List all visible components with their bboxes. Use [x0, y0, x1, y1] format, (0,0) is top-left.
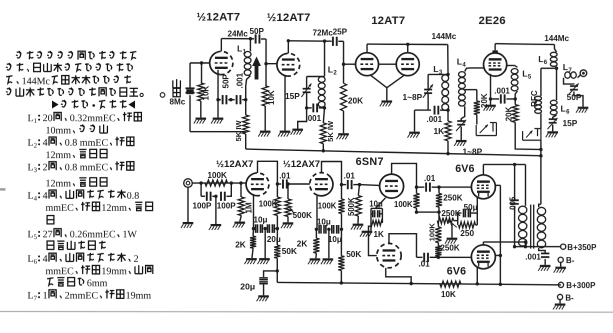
svg-text:5K IW: 5K IW — [234, 120, 243, 142]
wire 100P mid ground — [215, 196, 217, 224]
resistor R20 250K — [436, 187, 442, 212]
wire plate to transformer top — [483, 163, 525, 165]
tube V8 6SN7 upper — [380, 174, 404, 198]
label 10u C25 — [369, 199, 383, 208]
svg-text:20μ: 20μ — [240, 281, 255, 291]
capacitor C8 .001 stage3 — [435, 106, 449, 115]
label 100K R12 — [259, 199, 278, 208]
wire C19 to V8 grid — [359, 184, 379, 187]
svg-text:.001: .001 — [427, 115, 443, 124]
svg-text:L: L — [328, 65, 333, 75]
wire V9 grid — [368, 226, 376, 255]
tube V2 1/2 12AT7 label — [267, 12, 311, 24]
node L3 top junction — [446, 73, 449, 76]
svg-text:1K: 1K — [434, 126, 445, 136]
svg-text:144Mc: 144Mc — [544, 34, 569, 43]
label 1~8P C9 — [463, 147, 483, 157]
resistor R12 100K plate V6 — [274, 184, 280, 229]
node L6 center tap — [555, 67, 558, 70]
tube V9 6SN7 lower — [377, 243, 401, 267]
ground stage2 tank — [291, 129, 303, 135]
svg-text:100K: 100K — [427, 223, 436, 242]
svg-text:4: 4 — [34, 196, 38, 203]
node divider a — [415, 210, 418, 213]
svg-text:50P: 50P — [222, 74, 231, 89]
svg-text:2mmEC: 2mmEC — [65, 291, 99, 302]
resistor R13 2K cathode — [250, 229, 256, 259]
text note line 14 — [47, 216, 54, 224]
svg-text:100P: 100P — [192, 201, 212, 210]
capacitor C3 .001 — [231, 95, 246, 104]
wire grid link V3-V4 — [379, 63, 396, 65]
label 10u C16 — [253, 216, 267, 225]
label 100K R9 — [207, 171, 227, 180]
wire RF B feed line — [246, 149, 541, 156]
wire secondary bottom — [539, 248, 546, 253]
svg-text:6mm: 6mm — [87, 278, 108, 289]
label 100K R23 rotated — [427, 223, 436, 242]
tube V2 1/2 12AT7 triode — [277, 53, 300, 76]
node V6 plate junction — [276, 182, 279, 185]
ground stage3 tank — [408, 132, 420, 138]
ground R3 — [258, 131, 270, 137]
svg-text:5K IW: 5K IW — [326, 120, 335, 142]
svg-text:250K: 250K — [440, 244, 460, 253]
svg-text:2E26: 2E26 — [479, 15, 506, 27]
svg-text:24Mc: 24Mc — [228, 30, 249, 39]
wire to 6V6a grid — [439, 186, 471, 188]
wire bus corner — [276, 271, 278, 283]
capacitor C9 1-8P variable L4 — [456, 106, 466, 140]
label 15P C11 — [563, 118, 578, 128]
capacitor C14 100P — [221, 183, 231, 201]
resistor R8 20K screen — [512, 99, 518, 122]
label 10u C21 — [328, 235, 342, 244]
svg-text:10μ: 10μ — [317, 218, 331, 227]
connector antenna output — [580, 70, 587, 77]
resistor R7 20K grid PA — [474, 90, 480, 125]
text note line 10 — [27, 161, 133, 174]
node V7 cathode junction — [315, 228, 318, 231]
text note line 20 — [27, 290, 151, 303]
ground C12 — [576, 107, 588, 113]
resistor R16 100K plate V7 — [338, 185, 344, 230]
wire V10 screen — [496, 184, 501, 186]
tube V1 1/2 12AT7 label — [197, 11, 241, 23]
capacitor C1 50P coupling — [256, 34, 266, 43]
coil L3 — [442, 75, 449, 111]
label 10K R3 rotated — [267, 90, 276, 105]
artifact small circle — [160, 93, 165, 98]
capacitor C2 50P cathode — [218, 95, 231, 104]
wire 25P to V3 grid — [344, 41, 356, 64]
jack J2 meter plate — [523, 129, 541, 141]
label 1K R25 — [373, 230, 384, 239]
wire L2 feed — [324, 41, 326, 76]
label RFC rotated — [530, 90, 539, 107]
resistor R18 50K decouple V7 — [338, 229, 344, 283]
svg-text:19mm: 19mm — [126, 291, 152, 302]
svg-text:B+350P: B+350P — [567, 243, 597, 252]
svg-text:2: 2 — [134, 254, 139, 265]
node C2-C3 junction — [229, 98, 232, 101]
label 10K R1 rotated — [202, 86, 211, 101]
label .001 C10 — [494, 86, 510, 95]
label suisho kanji — [173, 79, 181, 97]
svg-text:144Mc: 144Mc — [432, 32, 457, 41]
ground R10 — [233, 222, 245, 228]
tube V3 12AT7 a — [356, 53, 379, 76]
label 20K R5 — [348, 96, 363, 106]
node 6V6b grid junction — [437, 256, 440, 259]
wire pot to cathode net — [454, 213, 458, 221]
arrow tuning slug L1 — [252, 56, 261, 79]
label 2K R17 — [297, 238, 308, 248]
node V2 plate junction — [287, 39, 290, 42]
svg-text:1~8P: 1~8P — [403, 92, 423, 102]
capacitor C22 .01 — [416, 183, 439, 192]
wire tank top stage3 — [428, 73, 448, 75]
tube V7 half 12AX7 — [310, 173, 333, 196]
ground R15 — [351, 224, 363, 230]
text note line 9 — [45, 149, 107, 161]
label 25P — [333, 28, 348, 37]
label 100K R19 — [394, 200, 413, 209]
svg-text:½12AT7: ½12AT7 — [197, 11, 241, 23]
coil RFC — [535, 68, 542, 128]
node feed junction — [539, 154, 542, 157]
coil L5 — [511, 69, 518, 99]
node bypass mid b — [327, 228, 330, 231]
wire bias net top — [371, 207, 382, 209]
svg-text:6SN7: 6SN7 — [356, 156, 384, 168]
text note line 11 — [45, 178, 107, 190]
svg-text:7: 7 — [34, 295, 38, 302]
terminal B+350P — [561, 244, 566, 249]
wire divider link — [416, 211, 439, 213]
resistor R24 250K grid 6V6b — [435, 246, 441, 258]
svg-text:12mm: 12mm — [45, 150, 71, 161]
svg-text:15P: 15P — [285, 91, 300, 101]
node input junction a — [199, 181, 202, 184]
svg-text:10K: 10K — [441, 290, 456, 299]
node C5 bottom junction — [305, 106, 308, 109]
svg-text:B-: B- — [566, 256, 575, 265]
node V5 cathode junction — [489, 97, 492, 100]
ground cathode stage1 — [211, 118, 223, 124]
ground C27 — [538, 265, 550, 271]
wire to 6V6b grid — [438, 256, 471, 258]
node 20u3 junction — [276, 269, 279, 272]
node B rail jack junction — [539, 148, 542, 151]
capacitor C20 10u — [319, 225, 326, 234]
capacitor C18 20u main filter — [259, 271, 277, 295]
svg-text:2K: 2K — [297, 238, 308, 248]
node V8 plate junction — [415, 185, 418, 188]
tube V11 6V6 label lower — [447, 265, 466, 277]
resistor R19 100K plate V8 — [413, 187, 419, 212]
svg-text:10K: 10K — [202, 86, 211, 101]
svg-text:0.8: 0.8 — [127, 191, 140, 202]
label 100K R16 — [318, 202, 337, 211]
label 50P — [250, 27, 265, 36]
label L6 upper — [538, 54, 548, 66]
node L2 bottom junction — [323, 106, 326, 109]
tube V6 label — [216, 159, 253, 170]
capacitor C4 25P — [333, 37, 344, 46]
wire V3 cathode diagonal — [370, 75, 387, 88]
tube V4 12AT7 b — [396, 53, 419, 76]
label 8Mc — [170, 97, 186, 106]
ground bypass mid — [257, 258, 269, 264]
text note line 3 — [6, 75, 131, 87]
capacitor C16 10u — [256, 224, 263, 233]
text note line 13 — [45, 202, 152, 214]
label 10u C20 — [317, 218, 331, 227]
node bypass mid a — [263, 227, 266, 230]
wire cathode common — [386, 88, 388, 101]
node L1 top junction — [249, 37, 252, 40]
svg-text:100K: 100K — [207, 171, 227, 180]
wire J2 to feed node — [540, 140, 542, 156]
svg-text:250K: 250K — [443, 194, 463, 203]
svg-text:L: L — [522, 68, 527, 78]
label 250K R24 — [440, 244, 460, 253]
node L3 bottom junction — [446, 108, 449, 111]
wire V1 grid — [190, 62, 210, 64]
wire V5 cathode — [490, 74, 492, 99]
svg-text:20K: 20K — [505, 106, 514, 121]
wire V7 cathode — [316, 196, 318, 230]
svg-text:3: 3 — [34, 167, 38, 174]
svg-text:144Mc: 144Mc — [22, 76, 51, 87]
label 20u C18 — [240, 281, 255, 291]
resistor R15 500K grid V8 — [355, 185, 361, 224]
label 1~8P C7 — [403, 92, 423, 102]
coil L2 — [318, 77, 325, 108]
svg-text:.001: .001 — [236, 72, 245, 88]
coil L6 upper — [550, 52, 557, 66]
svg-text:50K: 50K — [282, 246, 297, 256]
wire R8 to B rail — [515, 122, 541, 149]
svg-text:L: L — [538, 54, 543, 64]
text note line 12 — [27, 190, 139, 203]
ground R13 — [244, 258, 256, 264]
text note line 19 — [47, 278, 108, 290]
label .001 C27 — [525, 252, 541, 261]
svg-text:10μ: 10μ — [328, 235, 342, 244]
capacitor C10 .001 PA — [491, 94, 516, 103]
svg-text:25P: 25P — [333, 28, 348, 37]
wire cathode bus 6V6 — [476, 213, 478, 225]
svg-text:.005: .005 — [508, 196, 517, 212]
svg-text:L: L — [457, 57, 462, 67]
wire V6 cathode — [252, 195, 254, 228]
label 1K R6 — [434, 126, 445, 136]
label 250 R22 — [460, 228, 474, 238]
wire screen bus vertical — [499, 185, 501, 284]
svg-text:.001: .001 — [525, 252, 541, 261]
label .01 C22 — [424, 174, 436, 183]
label 20K R7 rotated — [480, 93, 489, 108]
text note line 6 — [28, 112, 142, 125]
svg-text:20K: 20K — [348, 96, 363, 106]
wire bypass mid ground — [264, 229, 266, 258]
text note line 1 — [16, 51, 136, 60]
svg-text:20μ: 20μ — [267, 235, 281, 244]
wire cathode ground lead — [217, 100, 219, 118]
svg-text:.001: .001 — [306, 114, 322, 123]
svg-text:RFC: RFC — [530, 90, 539, 107]
label 24Mc — [228, 30, 249, 39]
svg-text:4: 4 — [43, 138, 48, 149]
svg-text:10K: 10K — [267, 90, 276, 105]
tube V5 2E26 beam tetrode — [484, 53, 507, 76]
node input junction c — [239, 181, 242, 184]
svg-text:10μ: 10μ — [253, 216, 267, 225]
svg-text:20: 20 — [43, 113, 53, 124]
wire B350 rail — [515, 246, 561, 248]
transformer T1 core — [531, 205, 534, 249]
ground B- upper — [554, 262, 566, 272]
node V3 grid junction — [342, 63, 345, 66]
capacitor C24 .01 lower — [416, 253, 438, 262]
wire V4 cathode diagonal — [387, 75, 405, 88]
coil L1 — [244, 39, 251, 100]
svg-text:250: 250 — [460, 228, 474, 238]
wire V5 plate rail — [495, 43, 554, 46]
text note line 7 — [46, 124, 108, 136]
wire secondary top to feed — [540, 156, 542, 205]
svg-text:50P: 50P — [250, 27, 265, 36]
label 50P C12 — [567, 92, 582, 102]
node plate transformer join — [524, 240, 527, 243]
wire V1 cathode — [217, 70, 219, 100]
wire plate to transformer bottom — [483, 242, 525, 247]
coil L4 — [459, 68, 471, 106]
svg-text:0.26mmEC: 0.26mmEC — [70, 229, 116, 240]
node cathode junction — [216, 98, 219, 101]
label L7 — [563, 62, 573, 74]
svg-text:½12AX7: ½12AX7 — [283, 159, 320, 170]
svg-text:.01: .01 — [279, 172, 291, 181]
crystal X1 8Mc — [185, 63, 194, 132]
text note line 4 — [6, 87, 143, 96]
resistor R23 100K feedback — [435, 221, 441, 246]
resistor R26 10K bus — [440, 281, 461, 287]
label L4 — [457, 57, 467, 69]
node screen bus bottom — [499, 283, 502, 286]
transformer T1 secondary — [537, 204, 545, 247]
svg-text:12mm: 12mm — [45, 178, 71, 189]
wire V2 plate to rail — [287, 41, 289, 54]
wire V11 plate — [482, 242, 484, 245]
resistor R22 250 cathode — [458, 213, 478, 228]
svg-text:½12AT7: ½12AT7 — [267, 12, 311, 24]
wire plate rail corner to L6 — [554, 44, 556, 52]
wire V9 plate over-route — [389, 234, 417, 258]
label 100P C13 — [192, 201, 212, 210]
svg-text:10mm: 10mm — [46, 125, 72, 136]
wire V11 screen — [496, 254, 501, 256]
ground C9 — [454, 140, 466, 146]
svg-text:500K: 500K — [347, 197, 356, 216]
svg-text:1: 1 — [34, 118, 37, 125]
svg-text:100K: 100K — [259, 199, 278, 208]
label L6 lower — [561, 104, 571, 116]
wire tank top stage2 — [307, 76, 325, 78]
label 10K R26 — [441, 290, 456, 299]
svg-text:1: 1 — [43, 291, 48, 302]
svg-text:1W: 1W — [122, 229, 137, 240]
node input junction b — [230, 181, 233, 184]
node 100P mid — [214, 195, 217, 198]
label B+350P — [567, 243, 597, 252]
ground R17 — [308, 258, 320, 264]
resistor R2 5K 1W — [243, 100, 249, 149]
resistor R4 5K 1W stage2 — [320, 108, 326, 151]
svg-text:10μ: 10μ — [369, 199, 383, 208]
svg-text:6V6: 6V6 — [447, 265, 466, 277]
node 6V6 grid row junction — [437, 185, 440, 188]
ground R11 — [281, 222, 293, 228]
wire C5 ground lead — [298, 108, 307, 129]
tube V11 6V6 lower — [471, 245, 495, 269]
capacitor C12 50P variable — [564, 78, 584, 107]
tube V10 6V6 upper — [471, 175, 495, 199]
node V6 plate res bottom — [276, 227, 279, 230]
resistor R25 1K bias — [371, 214, 382, 226]
label 5K 1W R4 rotated — [326, 120, 335, 142]
svg-text:½12AX7: ½12AX7 — [216, 159, 253, 170]
svg-text:mmEC: mmEC — [45, 266, 74, 277]
tube V8 V9 6SN7 label — [356, 156, 384, 168]
svg-text:72Mc: 72Mc — [313, 28, 334, 37]
resistor R14 50K decouple — [274, 229, 280, 271]
wire top rail stage2 — [288, 40, 331, 42]
svg-text:0.8 mmEC: 0.8 mmEC — [65, 138, 109, 149]
svg-text:27: 27 — [43, 229, 53, 240]
svg-text:15P: 15P — [563, 118, 578, 128]
wire top rail stage1 — [221, 38, 254, 40]
ground R5 — [337, 133, 349, 139]
capacitor C15 .01 — [277, 179, 288, 188]
tube V6 half 12AX7 — [246, 173, 269, 196]
potentiometer R21 250K hum — [437, 212, 457, 244]
label L3 — [433, 64, 443, 76]
label L1 — [237, 43, 247, 55]
svg-text:L: L — [563, 62, 568, 72]
capacitor C21 10u — [332, 225, 339, 234]
wire V3 plate — [366, 44, 368, 53]
capacitor C27 .001 output — [541, 253, 549, 264]
scan artifact line — [0, 310, 613, 313]
wire V4 plate — [407, 44, 409, 52]
node V7 plate junction — [340, 183, 343, 186]
label B+300P — [566, 281, 596, 290]
wire input ground lead — [187, 187, 189, 222]
ground B- lower — [553, 300, 565, 310]
node feed 1K — [446, 152, 449, 155]
ground 100P mid — [209, 224, 221, 230]
node bus cathode11 — [476, 282, 479, 285]
wire bypass mid b ground — [328, 229, 330, 258]
tube V10 6V6 label upper — [455, 163, 474, 175]
ground C11 — [546, 131, 558, 137]
node L5 bottom junction — [514, 97, 517, 100]
capacitor C11 15P variable — [548, 115, 558, 131]
wire tank bottom stage3 — [415, 109, 432, 111]
